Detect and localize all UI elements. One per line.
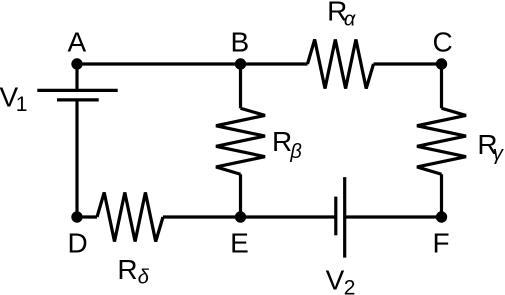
- wire A down to V1 top plate: [75, 64, 78, 90]
- node E: [235, 211, 246, 222]
- svg-text:δ: δ: [138, 267, 150, 289]
- wire D to R_delta: [77, 215, 97, 218]
- wire V1 to D: [75, 100, 78, 217]
- node F: [436, 211, 447, 222]
- resistor Rbeta zigzag: [216, 108, 265, 174]
- svg-text:E: E: [230, 228, 249, 259]
- battery V1 short plate: [57, 98, 99, 101]
- svg-text:β: β: [289, 141, 301, 163]
- svg-text:2: 2: [344, 277, 356, 295]
- svg-text:B: B: [231, 27, 250, 58]
- svg-text:C: C: [432, 27, 452, 58]
- svg-text:α: α: [344, 8, 356, 30]
- svg-text:V: V: [326, 264, 345, 295]
- svg-text:R: R: [272, 126, 292, 157]
- wire B to start of R_alpha: [241, 62, 308, 65]
- node B: [235, 58, 246, 69]
- wire R_gamma to F: [440, 174, 443, 217]
- battery V2 short plate: [334, 197, 337, 236]
- wire A to B (top left): [77, 62, 241, 65]
- resistor Rdelta zigzag: [97, 193, 163, 242]
- svg-text:γ: γ: [493, 143, 504, 165]
- battery V2 long plate: [343, 177, 346, 258]
- wire C down to R_gamma: [440, 64, 443, 108]
- svg-text:R: R: [117, 254, 137, 285]
- svg-text:F: F: [432, 228, 449, 259]
- svg-text:A: A: [68, 27, 87, 58]
- node A: [71, 58, 82, 69]
- battery V1 long plate: [37, 89, 117, 92]
- node C: [436, 58, 447, 69]
- resistor Ralpha zigzag: [308, 40, 374, 89]
- wire R_delta to E to V2: [163, 215, 336, 218]
- node D: [71, 211, 82, 222]
- wire V2 to F: [345, 215, 442, 218]
- wire R_alpha to C: [374, 62, 442, 65]
- svg-text:1: 1: [16, 93, 28, 116]
- wire B down to R_beta: [239, 64, 242, 108]
- wire R_beta to E: [239, 174, 242, 217]
- svg-text:D: D: [68, 228, 88, 259]
- resistor Rgamma zigzag: [417, 108, 466, 174]
